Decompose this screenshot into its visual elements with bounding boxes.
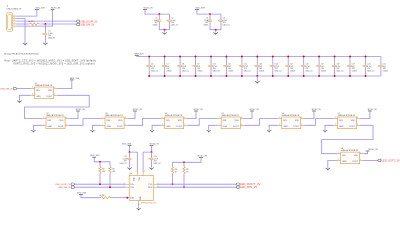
wire [44, 35, 46, 43]
wire [157, 186, 236, 188]
svg-text:NRF_5V0: NRF_5V0 [70, 78, 80, 80]
svg-text:GMB-LACR7RGB-TR: GMB-LACR7RGB-TR [105, 114, 123, 117]
wire [215, 30, 217, 33]
svg-text:3: 3 [357, 124, 358, 126]
junction [334, 56, 336, 58]
wire [187, 119, 218, 126]
wire [41, 23, 76, 25]
junction [210, 56, 212, 58]
wire [158, 14, 160, 19]
ground [213, 32, 218, 35]
svg-text:C0603: C0603 [383, 70, 388, 72]
wire [99, 162, 101, 167]
svg-text:LED_SOFT_3V: LED_SOFT_3V [382, 158, 400, 162]
svg-text:C0603: C0603 [228, 70, 233, 72]
ground [323, 130, 328, 133]
wire [209, 14, 211, 19]
svg-text:VDD: VDD [118, 120, 123, 122]
svg-text:GND: GND [342, 161, 347, 163]
wire [16, 23, 28, 25]
capacitor C10 [208, 64, 221, 73]
svg-text:NRF_3V3: NRF_3V3 [134, 54, 144, 56]
wire [148, 57, 150, 65]
svg-text:DIN: DIN [48, 120, 52, 122]
junction [172, 183, 174, 185]
wire [151, 146, 153, 153]
capacitor C17 [316, 64, 326, 73]
svg-text:GND: GND [166, 126, 171, 128]
power flag NCSC_IN [312, 109, 321, 111]
svg-text:UD-: UD- [130, 184, 134, 186]
svg-text:0402_5C: 0402_5C [48, 37, 56, 39]
IC U9 [124, 171, 159, 206]
svg-text:GND: GND [107, 126, 112, 128]
power flag NRF_5V0 [70, 78, 80, 80]
wire [303, 67, 305, 76]
junction [365, 56, 367, 58]
wire [363, 159, 377, 161]
RGB LED U3 [102, 113, 128, 129]
power flag NCSC_IN [368, 109, 377, 111]
wire [241, 57, 243, 65]
svg-text:1K: 1K [186, 171, 189, 173]
svg-text:0402_CC: 0402_CC [275, 70, 283, 72]
junction [126, 197, 128, 199]
wire [164, 67, 166, 76]
svg-text:VDD: VDD [132, 177, 134, 182]
ground [23, 43, 28, 46]
svg-text:GND: GND [36, 96, 41, 98]
svg-text:VDD: VDD [234, 120, 239, 122]
wire bus top rail [137, 55, 381, 58]
svg-text:0402_CC: 0402_CC [213, 70, 221, 72]
junction [215, 29, 217, 31]
net port USB_DM_5V [58, 186, 75, 189]
svg-text:10K: 10K [102, 171, 106, 173]
wire [179, 67, 181, 76]
svg-text:NCSC_3V: NCSC_3V [368, 149, 378, 151]
wire [187, 111, 196, 119]
capacitor C15 [285, 64, 295, 73]
junction [109, 186, 111, 188]
wire [380, 57, 382, 65]
svg-text:VDD: VDD [48, 90, 53, 92]
svg-text:GND: GND [283, 126, 288, 128]
svg-text:0402_CC: 0402_CC [120, 163, 128, 165]
power flag NCSC_3V [198, 156, 208, 158]
ground [127, 168, 132, 171]
capacitor C6 [146, 64, 159, 73]
svg-text:C0805: C0805 [153, 24, 158, 26]
wire [20, 95, 32, 100]
wire [25, 95, 90, 118]
junction [272, 56, 274, 58]
power flag NCSC_IN [194, 109, 203, 111]
wire [244, 111, 252, 119]
svg-text:C0603: C0603 [321, 70, 326, 72]
svg-text:DOUT: DOUT [176, 126, 182, 128]
power flag NCSC_IN [133, 109, 142, 111]
junction [164, 56, 166, 58]
wire [113, 197, 126, 199]
svg-text:DOUT: DOUT [352, 161, 358, 163]
wire [16, 19, 25, 43]
svg-text:GMB-LACR7RGB-TR: GMB-LACR7RGB-TR [221, 114, 239, 117]
wire [81, 194, 99, 197]
svg-text:0402_CC: 0402_CC [336, 70, 344, 72]
svg-text:DIN: DIN [107, 120, 111, 122]
wire [164, 57, 166, 65]
svg-text:0402_CC: 0402_CC [223, 24, 231, 26]
junction [272, 75, 274, 77]
wire [318, 57, 320, 65]
resistor R6 [99, 195, 112, 199]
svg-text:USB_DOUP_5V: USB_DOUP_5V [55, 184, 71, 186]
power flag VDD_5V0 [35, 8, 45, 10]
svg-text:DIN: DIN [223, 120, 227, 122]
svg-text:DOUT: DOUT [58, 126, 64, 128]
svg-text:GND: GND [339, 126, 344, 128]
wire [109, 162, 111, 167]
capacitor C22 [120, 156, 132, 165]
capacitor C4 [218, 18, 231, 27]
junction [318, 56, 320, 58]
junction [148, 75, 150, 77]
wire [365, 67, 367, 76]
svg-text:R6 33R: R6 33R [100, 195, 106, 197]
svg-text:3: 3 [360, 159, 361, 161]
wire [272, 67, 274, 76]
wire [164, 30, 166, 33]
power flag NCSC_3V [366, 149, 379, 151]
power flag NCSC_IN [250, 109, 259, 111]
ground [267, 130, 272, 133]
resistor R2 [99, 166, 106, 173]
ground [136, 208, 141, 211]
capacitor C13 [255, 64, 265, 73]
wire [172, 174, 174, 185]
power flag VDD_3V3 [77, 192, 87, 194]
svg-text:NCSC_IN: NCSC_IN [194, 109, 203, 111]
wire [183, 162, 185, 166]
svg-text:USB_DM_5V: USB_DM_5V [58, 187, 72, 189]
wire [287, 57, 289, 65]
svg-text:2: 2 [14, 17, 15, 19]
svg-text:0402_CC: 0402_CC [154, 163, 162, 165]
wire [128, 119, 162, 126]
wire [75, 183, 126, 185]
junction [151, 151, 153, 153]
resistor R4 [171, 167, 177, 174]
ground [150, 130, 155, 133]
wire [151, 152, 153, 158]
junction [287, 75, 289, 77]
svg-text:DIN: DIN [166, 120, 170, 122]
wire [157, 183, 236, 185]
svg-text:GMB-LACR7RGB-TR: GMB-LACR7RGB-TR [282, 114, 300, 117]
ground [90, 130, 95, 133]
junction [349, 75, 351, 77]
wire [99, 173, 101, 184]
wire [152, 125, 161, 130]
junction [365, 75, 367, 77]
svg-text:1: 1 [14, 15, 15, 17]
junction [241, 56, 243, 58]
svg-text:USB_DM_5V: USB_DM_5V [0, 89, 14, 91]
svg-text:NCSC_IN: NCSC_IN [133, 109, 142, 111]
svg-text:GND: GND [139, 196, 141, 201]
wire [169, 22, 171, 30]
wire [220, 22, 222, 30]
svg-text:GMB-LACR7RGB-TR: GMB-LACR7RGB-TR [35, 84, 53, 87]
RGB LED U7 [334, 113, 360, 129]
svg-text:1: 1 [219, 117, 220, 119]
junction [183, 186, 185, 188]
wire [195, 67, 197, 76]
junction [256, 75, 258, 77]
RGB LED U8 [337, 148, 363, 164]
wire [210, 67, 212, 76]
svg-text:0402_CC: 0402_CC [306, 70, 314, 72]
wire [129, 146, 131, 153]
capacitor C23 [149, 156, 162, 165]
svg-text:UART2_RXD_3V3 + WS2812_MOSI_3V: UART2_RXD_3V3 + WS2812_MOSI_3V3 = LED_SI… [13, 62, 95, 65]
svg-text:3: 3 [14, 20, 15, 22]
ground [162, 32, 167, 35]
capacitor C3 [203, 18, 212, 27]
wire [225, 67, 227, 76]
wire [57, 80, 72, 89]
svg-text:VDD: VDD [59, 120, 64, 122]
wire [34, 125, 43, 130]
svg-text:USB_DM_5V: USB_DM_5V [80, 24, 95, 27]
svg-text:DOUT: DOUT [349, 126, 355, 128]
power flag NRF_3V3 [134, 54, 144, 56]
wire [172, 162, 174, 166]
wire [334, 67, 336, 76]
svg-text:C0603: C0603 [352, 70, 357, 72]
wire [128, 111, 135, 119]
ground [43, 43, 48, 46]
resistor R1 [28, 21, 41, 25]
wire [148, 67, 150, 76]
svg-text:NCSC_IN: NCSC_IN [150, 144, 160, 146]
svg-text:4: 4 [125, 117, 126, 119]
svg-text:0402_CC: 0402_CC [171, 24, 179, 26]
capacitor C16 [301, 64, 314, 73]
RGB LED U4 [161, 113, 187, 129]
svg-text:DIN: DIN [36, 90, 40, 92]
svg-text:DIN: DIN [339, 120, 343, 122]
junction [225, 56, 227, 58]
svg-text:NCSC_IN: NCSC_IN [51, 8, 61, 10]
svg-text:1: 1 [144, 171, 145, 173]
svg-text:1K: 1K [175, 171, 178, 173]
wire [75, 186, 126, 188]
junction [225, 75, 227, 77]
svg-text:GMB-LACR7RGB-TR: GMB-LACR7RGB-TR [165, 114, 183, 117]
capacitor C5 [43, 31, 56, 40]
wire [69, 119, 102, 126]
net port USB_DOUP_5V [76, 20, 98, 23]
wire [129, 160, 131, 168]
capacitor C8 [177, 64, 190, 73]
ground [255, 81, 260, 84]
junction [287, 56, 289, 58]
wire [197, 9, 221, 14]
svg-text:MTP2012HQxxV2: MTP2012HQxxV2 [141, 202, 156, 204]
capacitor C11 [224, 64, 234, 73]
wire [256, 67, 258, 76]
svg-text:NCSC_IN: NCSC_IN [143, 7, 153, 9]
junction [349, 56, 351, 58]
ground [149, 168, 154, 171]
wire [179, 57, 181, 65]
svg-text:GMB-LACR7RGB-TR: GMB-LACR7RGB-TR [338, 114, 356, 117]
connector J1 USB [7, 6, 23, 32]
capacitor C18 [332, 64, 345, 73]
svg-text:DIN: DIN [342, 155, 346, 157]
capacitor C14 [270, 64, 283, 73]
wire [138, 204, 140, 209]
junction [195, 75, 197, 77]
svg-text:DOUT: DOUT [117, 126, 123, 128]
capacitor C20 [363, 64, 376, 73]
svg-text:GND: GND [223, 126, 228, 128]
wire [109, 173, 111, 187]
wire [130, 152, 138, 172]
wire [220, 14, 222, 19]
svg-text:J1: J1 [7, 6, 9, 8]
junction [179, 56, 181, 58]
wire [256, 57, 258, 65]
svg-text:VDD: VDD [295, 120, 300, 122]
wire [349, 67, 351, 76]
svg-text:NCSC_3V: NCSC_3V [198, 156, 208, 158]
wire [93, 125, 102, 130]
wire [210, 57, 212, 65]
capacitor C7 [162, 64, 172, 73]
wire [256, 76, 258, 81]
junction [158, 13, 160, 15]
svg-text:LED_DIN_3V: LED_DIN_3V [240, 185, 257, 189]
wire [169, 14, 171, 19]
svg-text:C0603: C0603 [166, 70, 171, 72]
junction [334, 75, 336, 77]
net port LED_SOFT_3V [378, 158, 400, 162]
ground [31, 130, 36, 133]
svg-text:0402_CC: 0402_CC [182, 70, 190, 72]
power flag NCSC_IN [143, 7, 153, 9]
wire [159, 22, 169, 30]
ground [17, 101, 22, 104]
wire [16, 10, 37, 17]
net port USB_DM_5V [76, 23, 95, 26]
svg-text:2: 2 [219, 124, 220, 126]
wire [322, 125, 373, 153]
RGB LED U6 [278, 113, 304, 129]
power flag VDD_3V3 [122, 144, 132, 146]
svg-text:8: 8 [140, 204, 141, 206]
wire [304, 111, 314, 119]
svg-text:4: 4 [357, 117, 358, 119]
svg-text:4: 4 [360, 152, 361, 154]
wire [94, 157, 110, 162]
junction [129, 151, 131, 153]
wire [272, 57, 274, 65]
wire [129, 152, 131, 158]
wire [44, 24, 46, 33]
wire [303, 57, 305, 65]
wire [210, 22, 221, 30]
svg-text:C0603: C0603 [290, 70, 295, 72]
svg-text:VDD_3V3: VDD_3V3 [122, 144, 132, 146]
ground [326, 168, 331, 171]
svg-text:NCSC_IN: NCSC_IN [312, 109, 321, 111]
svg-text:DOUT: DOUT [293, 126, 299, 128]
power flag VDD_3V3 [195, 7, 205, 9]
wire [328, 160, 337, 168]
svg-text:NCSC_IN: NCSC_IN [368, 109, 377, 111]
wire [17, 88, 31, 90]
wire bus bottom rail [149, 75, 381, 77]
net port USB_DM_5V [0, 87, 17, 90]
svg-text:TXD: TXD [148, 184, 153, 186]
RGB LED U1 [31, 83, 57, 99]
svg-text:0402_CC: 0402_CC [151, 70, 159, 72]
junction [183, 161, 185, 163]
svg-text:10K: 10K [112, 171, 116, 173]
net port LED_DIN_3V [236, 185, 258, 189]
wire [173, 158, 202, 163]
svg-text:4: 4 [66, 117, 67, 119]
wire [349, 57, 351, 65]
junction [195, 56, 197, 58]
svg-text:VDD_3V3: VDD_3V3 [77, 192, 87, 194]
junction [209, 13, 211, 15]
net port LED_DOUT_3V [236, 182, 261, 186]
svg-text:3: 3 [66, 124, 67, 126]
svg-text:DOUT: DOUT [233, 126, 239, 128]
svg-text:4: 4 [14, 23, 15, 25]
svg-text:GMB-LACR7RGB-TR: GMB-LACR7RGB-TR [46, 114, 64, 117]
svg-text:VDD_3V3: VDD_3V3 [195, 7, 205, 9]
junction [148, 56, 150, 58]
capacitor C12 [239, 64, 252, 73]
junction [99, 183, 101, 185]
wire [365, 57, 367, 65]
svg-text:C0805: C0805 [203, 24, 208, 26]
svg-text:VDD: VDD [354, 155, 359, 157]
junction [210, 75, 212, 77]
svg-text:NCSC_IN: NCSC_IN [76, 109, 85, 111]
svg-text:0402_CC: 0402_CC [367, 70, 375, 72]
junction [241, 75, 243, 77]
wire [145, 9, 170, 14]
svg-text:VCC: VCC [138, 177, 140, 182]
wire [183, 174, 185, 188]
svg-text:C0603: C0603 [259, 70, 264, 72]
wire [143, 152, 151, 172]
svg-text:GND: GND [48, 126, 53, 128]
wire [16, 10, 52, 27]
wire [325, 125, 334, 130]
svg-text:GMB-LACR7RGB-TR: GMB-LACR7RGB-TR [341, 149, 359, 152]
ground [206, 130, 211, 133]
junction [179, 75, 181, 77]
junction [99, 161, 101, 163]
wire [318, 67, 320, 76]
